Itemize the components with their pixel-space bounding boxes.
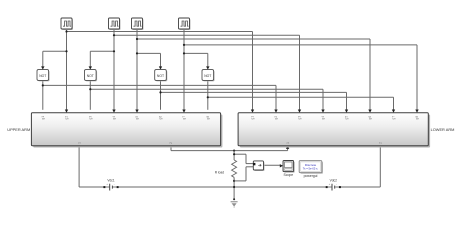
svg-text:g6: g6: [368, 116, 372, 120]
svg-text:LOWER ARM: LOWER ARM: [431, 127, 455, 132]
svg-text:g8: g8: [415, 116, 419, 120]
svg-text:Ts = 5e-05 s.: Ts = 5e-05 s.: [303, 167, 319, 171]
svg-text:Discrete: Discrete: [305, 163, 317, 167]
svg-text:g4: g4: [321, 116, 325, 120]
svg-text:NOT: NOT: [157, 74, 164, 78]
svg-text:UPPER ARM: UPPER ARM: [7, 127, 30, 132]
svg-text:g5: g5: [345, 116, 349, 120]
svg-text:Vdc1: Vdc1: [107, 179, 114, 183]
svg-text:2: 2: [379, 142, 383, 144]
svg-text:NOT: NOT: [204, 74, 211, 78]
svg-text:g1: g1: [41, 116, 45, 120]
svg-text:Scope: Scope: [283, 173, 293, 177]
svg-text:g6: g6: [159, 116, 163, 120]
svg-text:g3: g3: [89, 116, 93, 120]
svg-text:g8: g8: [206, 116, 210, 120]
svg-text:g5: g5: [135, 116, 139, 120]
svg-text:1: 1: [77, 142, 81, 144]
svg-text:g2: g2: [274, 116, 278, 120]
svg-text:g7: g7: [182, 116, 186, 120]
svg-text:Vdc2: Vdc2: [330, 179, 337, 183]
svg-text:g4: g4: [112, 116, 116, 120]
svg-text:1: 1: [286, 142, 290, 144]
svg-text:NOT: NOT: [39, 74, 46, 78]
svg-text:g2: g2: [65, 116, 69, 120]
svg-text:g1: g1: [251, 116, 255, 120]
svg-text:g7: g7: [392, 116, 396, 120]
svg-text:2: 2: [169, 142, 173, 144]
svg-text:NOT: NOT: [87, 74, 94, 78]
svg-text:R load: R load: [215, 171, 224, 175]
svg-text:g3: g3: [298, 116, 302, 120]
svg-text:powergui: powergui: [304, 174, 318, 178]
